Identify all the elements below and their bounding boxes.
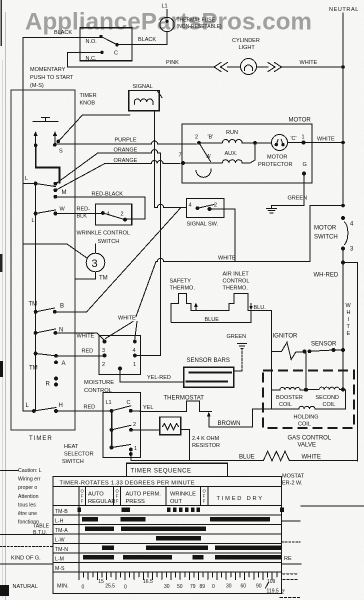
- svg-text:SAFETY: SAFETY: [170, 279, 192, 285]
- momentary contact arrows: [35, 135, 37, 145]
- svg-text:SWITCH: SWITCH: [98, 239, 120, 245]
- connector arrow brown: [208, 415, 210, 427]
- svg-text:1: 1: [302, 135, 305, 141]
- svg-text:L1: L1: [106, 400, 112, 406]
- svg-text:MOTOR: MOTOR: [289, 118, 312, 124]
- svg-text:4: 4: [133, 348, 136, 354]
- svg-text:tous les: tous les: [18, 502, 36, 508]
- svg-text:'C': 'C': [291, 136, 297, 142]
- svg-text:3: 3: [92, 258, 98, 270]
- svg-text:3: 3: [102, 348, 105, 354]
- svg-text:0: 0: [124, 585, 127, 591]
- signal switch box: [187, 199, 225, 218]
- svg-text:1: 1: [134, 446, 137, 452]
- svg-text:GAS CONTROL: GAS CONTROL: [288, 436, 332, 442]
- moisture control box: [99, 336, 141, 375]
- svg-text:HEAT: HEAT: [64, 444, 79, 450]
- gas control valve dashed box: [263, 371, 354, 429]
- svg-text:BROWN: BROWN: [218, 421, 241, 427]
- svg-text:TIMER: TIMER: [29, 436, 53, 442]
- wire G to ground: [302, 172, 306, 176]
- timer assembly box: [11, 90, 75, 430]
- svg-text:(NON-RESETABLE): (NON-RESETABLE): [177, 24, 223, 30]
- svg-text:BOOSTER: BOOSTER: [276, 395, 303, 401]
- svg-text:WHITE: WHITE: [300, 60, 318, 66]
- resistor 2.4k: [131, 428, 160, 430]
- svg-text:COIL: COIL: [279, 402, 292, 408]
- svg-text:89: 89: [200, 584, 206, 590]
- svg-text:Wiring err: Wiring err: [18, 477, 41, 483]
- svg-text:GREEN: GREEN: [288, 196, 308, 202]
- svg-text:LIGHT: LIGHT: [239, 45, 256, 51]
- svg-text:C: C: [127, 400, 131, 406]
- svg-text:NEUTRAL: NEUTRAL: [329, 7, 359, 13]
- svg-text:NATURAL: NATURAL: [13, 584, 38, 590]
- svg-text:TIMED DRY: TIMED DRY: [217, 496, 264, 502]
- chart bars row L-H: [82, 517, 98, 522]
- svg-text:WHITE: WHITE: [118, 316, 136, 322]
- scan blob left mid: [0, 361, 3, 377]
- svg-text:MOTOR: MOTOR: [267, 155, 287, 161]
- svg-text:WHITE: WHITE: [317, 137, 335, 143]
- svg-text:PRESS: PRESS: [126, 499, 145, 505]
- wrinkle control switch box: [96, 204, 132, 225]
- svg-text:F: F: [81, 499, 84, 504]
- svg-text:MIN.: MIN.: [57, 584, 69, 590]
- svg-text:0: 0: [212, 584, 215, 590]
- wire neutral rail: [342, 13, 344, 206]
- svg-text:TIMER: TIMER: [80, 93, 97, 99]
- wire sensor bars to green ground: [234, 370, 242, 372]
- scan blob bottom left: [0, 585, 9, 596]
- svg-text:YEL-RED: YEL-RED: [147, 375, 171, 381]
- connector chevrons right of cylinder light: [257, 66, 269, 68]
- svg-text:50: 50: [177, 584, 183, 590]
- svg-text:2: 2: [214, 203, 217, 209]
- motor centrifugal switch arm: [199, 143, 211, 162]
- svg-text:F: F: [116, 499, 119, 504]
- svg-text:MOTOR: MOTOR: [314, 226, 337, 232]
- wire signal right lead down: [154, 111, 156, 208]
- svg-text:AUTO: AUTO: [88, 492, 104, 498]
- svg-text:4: 4: [189, 203, 192, 209]
- wire to protector: [255, 142, 272, 144]
- svg-text:TM-N: TM-N: [55, 547, 68, 553]
- svg-text:BLU.: BLU.: [254, 305, 267, 311]
- svg-text:proper o: proper o: [18, 485, 37, 491]
- svg-text:L1: L1: [162, 4, 168, 10]
- svg-text:M: M: [62, 190, 67, 196]
- svg-text:PUSH TO START: PUSH TO START: [30, 75, 74, 81]
- scan edge dark: [0, 0, 2, 46]
- chart bars row L-W: [156, 536, 201, 541]
- booster coil: [272, 387, 306, 390]
- timer motor TM: [86, 253, 105, 272]
- svg-text:GREEN: GREEN: [227, 334, 247, 340]
- svg-text:SENSOR BARS: SENSOR BARS: [187, 358, 230, 364]
- wire signal feed from knob: [58, 115, 130, 142]
- svg-text:L-H: L-H: [55, 519, 64, 525]
- wire signal switch feed: [155, 204, 187, 207]
- chart bars row TM-N: [102, 545, 114, 550]
- timer chart frame: [53, 477, 282, 594]
- svg-text:THERMAL FUSE: THERMAL FUSE: [177, 18, 216, 24]
- svg-text:BLACK: BLACK: [138, 37, 156, 43]
- svg-text:SIGNAL SW.: SIGNAL SW.: [187, 222, 219, 228]
- svg-text:2: 2: [102, 362, 105, 368]
- svg-text:PROTECTOR: PROTECTOR: [258, 162, 292, 168]
- svg-text:CONTROL: CONTROL: [84, 388, 112, 394]
- svg-text:IGNITOR: IGNITOR: [273, 334, 299, 340]
- svg-text:H: H: [347, 310, 351, 316]
- svg-text:TM: TM: [99, 276, 108, 282]
- chart bars row TM-B: [78, 507, 81, 512]
- heat selector switch box: [103, 393, 141, 458]
- svg-text:RED: RED: [82, 349, 94, 355]
- svg-text:RE: RE: [284, 556, 292, 562]
- svg-text:L-W: L-W: [55, 538, 65, 544]
- svg-text:SWITCH: SWITCH: [62, 459, 84, 465]
- ground symbol green: [238, 344, 247, 349]
- svg-text:7: 7: [179, 153, 182, 159]
- svg-text:E: E: [347, 331, 351, 337]
- push button actuator: [33, 118, 58, 122]
- svg-text:C: C: [114, 51, 118, 57]
- wire neutral junction to motor switch branch: [341, 204, 345, 208]
- svg-text:90: 90: [256, 584, 262, 590]
- holding coil: [253, 390, 346, 410]
- svg-text:MOMENTARY: MOMENTARY: [30, 67, 66, 73]
- svg-text:SECOND: SECOND: [316, 395, 340, 401]
- svg-text:BLACK: BLACK: [54, 30, 72, 36]
- thermal fuse F2: [160, 17, 174, 31]
- svg-text:REGULAR: REGULAR: [88, 499, 116, 505]
- svg-text:VALVE: VALVE: [298, 443, 316, 449]
- svg-text:16.5: 16.5: [143, 579, 153, 585]
- chart bars row L-M: [83, 555, 114, 560]
- svg-text:2: 2: [195, 135, 198, 141]
- svg-text:KNOB: KNOB: [80, 101, 96, 107]
- node M contacts: [54, 182, 58, 186]
- svg-text:TM: TM: [29, 302, 38, 308]
- wire signal switch to white: [210, 209, 235, 262]
- svg-text:TM: TM: [29, 366, 38, 372]
- svg-text:Attention: Attention: [18, 494, 39, 500]
- svg-text:PINK: PINK: [166, 60, 179, 66]
- wire moisture 1 to riser: [135, 355, 161, 357]
- svg-text:OUT: OUT: [170, 499, 183, 505]
- svg-text:SELECTOR: SELECTOR: [64, 452, 94, 458]
- svg-text:MOSTAT: MOSTAT: [282, 474, 305, 480]
- svg-text:(M-S): (M-S): [30, 83, 44, 89]
- svg-text:30: 30: [164, 584, 170, 590]
- svg-text:2: 2: [133, 422, 136, 428]
- wire TM-B to signal feed diagonal: [87, 208, 181, 312]
- svg-text:S: S: [59, 149, 63, 155]
- svg-text:THERMO.: THERMO.: [223, 286, 249, 292]
- svg-text:B: B: [60, 304, 64, 310]
- chart column lines: [79, 486, 208, 572]
- main left rail: [22, 38, 24, 412]
- svg-text:AIR INLET: AIR INLET: [223, 272, 250, 278]
- heater zigzag: [263, 451, 289, 460]
- svg-text:WRINKLE CONTROL: WRINKLE CONTROL: [77, 231, 130, 237]
- svg-text:KIND OF G.: KIND OF G.: [11, 556, 41, 562]
- svg-text:WHITE: WHITE: [302, 455, 321, 461]
- svg-text:TABLE: TABLE: [33, 524, 50, 530]
- svg-text:ER-2 W.: ER-2 W.: [282, 481, 303, 487]
- push-to-start switch box: [80, 28, 132, 61]
- svg-text:W: W: [60, 207, 66, 213]
- node S contacts: [34, 144, 38, 148]
- svg-text:60: 60: [241, 584, 247, 590]
- chart row lines: [53, 515, 282, 572]
- svg-text:79: 79: [190, 584, 196, 590]
- svg-text:L: L: [25, 176, 28, 182]
- svg-text:W: W: [346, 303, 352, 309]
- wire WHITE diagonal to moisture 4: [136, 262, 156, 317]
- svg-text:B.T.U.: B.T.U.: [33, 530, 47, 536]
- svg-text:L: L: [32, 218, 35, 224]
- svg-text:2: 2: [121, 212, 124, 218]
- svg-text:WRINKLE: WRINKLE: [170, 492, 196, 498]
- svg-text:SWITCH: SWITCH: [314, 235, 338, 241]
- wire to ignitor: [271, 311, 273, 390]
- svg-text:HOLDING: HOLDING: [294, 415, 319, 421]
- svg-text:N.O.: N.O.: [86, 39, 98, 45]
- connector arrow up: [195, 306, 197, 311]
- svg-text:BLUE: BLUE: [239, 455, 255, 461]
- svg-text:2.4 K OHM: 2.4 K OHM: [192, 436, 220, 442]
- svg-text:WHITE: WHITE: [77, 334, 95, 340]
- svg-text:RUN: RUN: [226, 130, 238, 136]
- svg-text:AUX.: AUX.: [225, 151, 238, 157]
- svg-text:109: 109: [267, 579, 276, 585]
- page edge line: [4, 12, 6, 600]
- scan blob left upper: [0, 254, 3, 272]
- motor protector: [272, 135, 288, 151]
- svg-text:COIL: COIL: [298, 422, 311, 428]
- svg-text:A: A: [62, 361, 66, 367]
- svg-text:THERMO.: THERMO.: [170, 286, 196, 292]
- svg-text:WHITE: WHITE: [218, 256, 236, 262]
- svg-text:COIL: COIL: [323, 402, 336, 408]
- svg-text:R: R: [46, 382, 51, 388]
- left contact rail: [35, 184, 37, 412]
- timer sequence title box: [127, 463, 228, 476]
- svg-text:25.5: 25.5: [105, 584, 115, 590]
- svg-text:YEL: YEL: [143, 405, 153, 411]
- svg-text:TIMER SEQUENCE: TIMER SEQUENCE: [131, 469, 192, 475]
- chart bars row TM-A: [85, 526, 114, 531]
- svg-text:SENSOR: SENSOR: [311, 342, 337, 348]
- svg-text:WH-RED: WH-RED: [314, 273, 339, 279]
- svg-text:être une: être une: [18, 511, 37, 517]
- svg-text:30: 30: [226, 584, 232, 590]
- wire B to diagonal: [55, 311, 87, 313]
- connector chevrons left of cylinder light: [214, 63, 228, 72]
- svg-text:TM-A: TM-A: [55, 528, 68, 534]
- svg-text:Caution: L: Caution: L: [18, 468, 42, 474]
- svg-text:N.C.: N.C.: [86, 56, 97, 62]
- svg-text:119.5: 119.5: [267, 589, 279, 595]
- wire N.C. to PINK: [68, 52, 214, 67]
- svg-text:PURPLE: PURPLE: [115, 138, 137, 144]
- svg-text:RED-: RED-: [77, 207, 91, 213]
- switch arm push-to-start: [101, 37, 117, 45]
- ground symbol motor: [267, 209, 277, 213]
- svg-text:0: 0: [82, 585, 85, 591]
- second coil: [306, 387, 343, 390]
- svg-text:M-S: M-S: [55, 566, 65, 572]
- wire safety thermo bumps: [171, 294, 272, 323]
- svg-text:CONTROL: CONTROL: [223, 279, 250, 285]
- svg-text:2': 2': [282, 590, 286, 596]
- svg-text:TIMER-ROTATES 1.33 DEGREES PER: TIMER-ROTATES 1.33 DEGREES PER MINUTE: [60, 481, 195, 487]
- svg-text:RED: RED: [84, 405, 96, 411]
- svg-text:H: H: [59, 403, 63, 409]
- svg-text:TM-B: TM-B: [55, 509, 68, 515]
- svg-text:15: 15: [98, 579, 104, 585]
- wire M common thick: [36, 145, 60, 183]
- svg-text:1: 1: [133, 362, 136, 368]
- svg-text:AUTO PERM.: AUTO PERM.: [126, 492, 162, 498]
- svg-text:MOISTURE: MOISTURE: [84, 380, 114, 386]
- svg-text:G: G: [303, 162, 307, 168]
- svg-text:BLK: BLK: [77, 214, 88, 220]
- svg-text:F: F: [203, 499, 206, 504]
- svg-text:SIGNAL: SIGNAL: [133, 84, 153, 90]
- svg-text:CYLINDER: CYLINDER: [232, 38, 260, 44]
- svg-text:L-M: L-M: [55, 557, 64, 563]
- scale tick marks: [79, 572, 277, 579]
- svg-text:'B': 'B': [208, 135, 214, 141]
- svg-text:RESISTOR: RESISTOR: [192, 443, 220, 449]
